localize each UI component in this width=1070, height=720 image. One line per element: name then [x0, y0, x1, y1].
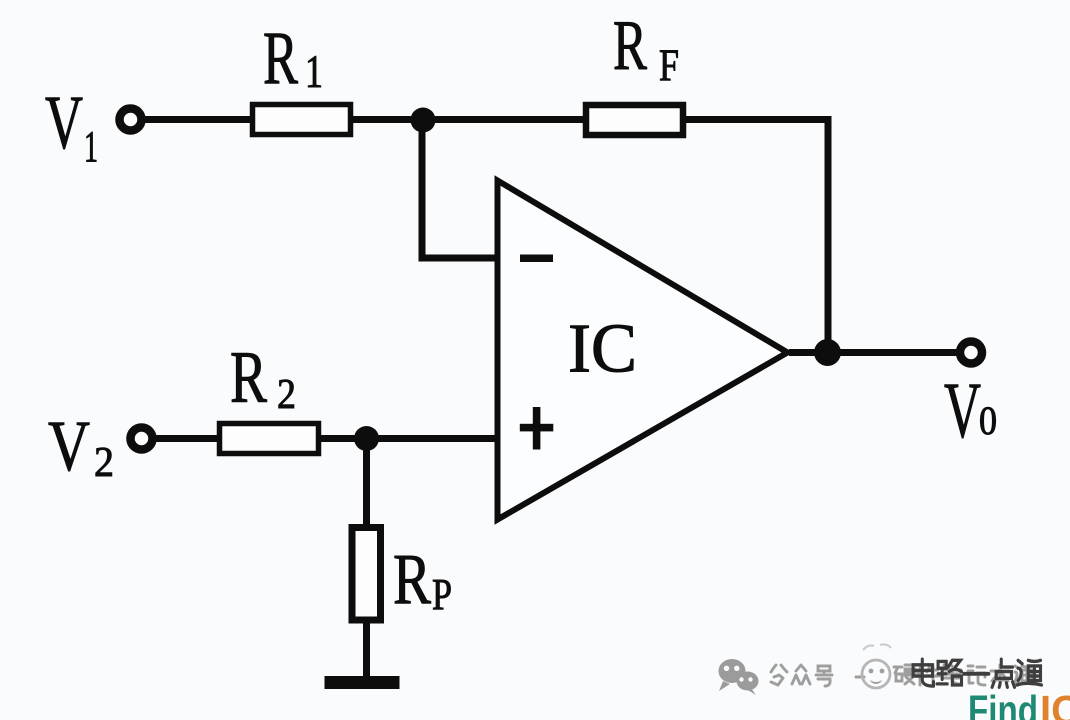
light char 本 — [991, 665, 1009, 685]
svg-text:F: F — [659, 41, 679, 91]
wire V1 terminal to R1 — [144, 116, 256, 123]
svg-text:2: 2 — [277, 372, 296, 418]
wire node B drop to RP — [363, 439, 370, 528]
ground — [325, 676, 400, 689]
op-amp minus input sign — [520, 255, 553, 263]
wire output node to output terminal — [789, 349, 957, 356]
svg-text:V: V — [48, 406, 90, 486]
svg-text:R: R — [613, 7, 647, 85]
terminal V0 — [960, 342, 982, 364]
light char 硬 — [894, 665, 915, 684]
char 通 — [1017, 660, 1041, 685]
svg-text:V: V — [45, 81, 83, 165]
char 电 — [913, 659, 933, 686]
output node junction dot — [814, 339, 841, 366]
watermark: circular logo — [862, 644, 891, 688]
svg-text:1: 1 — [305, 46, 323, 98]
svg-text:R: R — [393, 539, 431, 619]
light char 件 — [918, 666, 939, 685]
watermark: FindIC logo — [968, 687, 1070, 720]
terminal V1 — [120, 109, 142, 131]
svg-text:P: P — [432, 570, 452, 619]
svg-text:1: 1 — [84, 122, 98, 171]
wire RP to ground — [363, 621, 370, 680]
char 公 — [771, 665, 787, 685]
watermark: light gray text 公众号- — [771, 665, 1033, 686]
wire V2 terminal to R2 — [155, 435, 222, 442]
svg-text:0: 0 — [979, 398, 997, 443]
terminal V2 — [131, 428, 153, 450]
svg-text:Find: Find — [968, 687, 1038, 720]
resistor R1 — [253, 105, 351, 135]
node A junction dot — [411, 108, 436, 133]
resistor RP — [352, 528, 381, 621]
svg-text:IC: IC — [1040, 687, 1070, 720]
watermark: dark gray text 电路一点通 — [913, 659, 1041, 687]
svg-text:IC: IC — [568, 311, 637, 388]
op-amp plus input sign — [520, 424, 554, 432]
svg-text:V: V — [944, 368, 981, 455]
svg-text:R: R — [230, 337, 267, 419]
wire to inverting input — [419, 255, 497, 262]
resistor RF — [586, 105, 683, 135]
dash — [856, 676, 864, 679]
char 点 — [992, 659, 1014, 687]
wire node A drop to inverting input — [419, 120, 426, 262]
char 一 — [964, 672, 988, 676]
op-amp U1 triangle — [498, 181, 788, 520]
resistor R2 — [220, 424, 319, 454]
wire R1 to RF (through node A) — [349, 116, 587, 123]
light char 通 — [1014, 666, 1033, 684]
wire RF to right corner — [682, 116, 832, 123]
svg-text:R: R — [263, 17, 298, 100]
watermark: wechat icon — [719, 659, 759, 695]
char 众 — [792, 665, 810, 684]
wire R2 to noninverting input (through node B) — [316, 435, 496, 442]
wire right vertical drop to output node — [825, 116, 832, 353]
node B junction dot — [354, 426, 379, 451]
svg-text:2: 2 — [94, 440, 114, 486]
char 号 — [816, 666, 832, 686]
light char 笔 — [943, 665, 961, 684]
char 路 — [937, 660, 961, 685]
light char 记 — [968, 666, 985, 685]
